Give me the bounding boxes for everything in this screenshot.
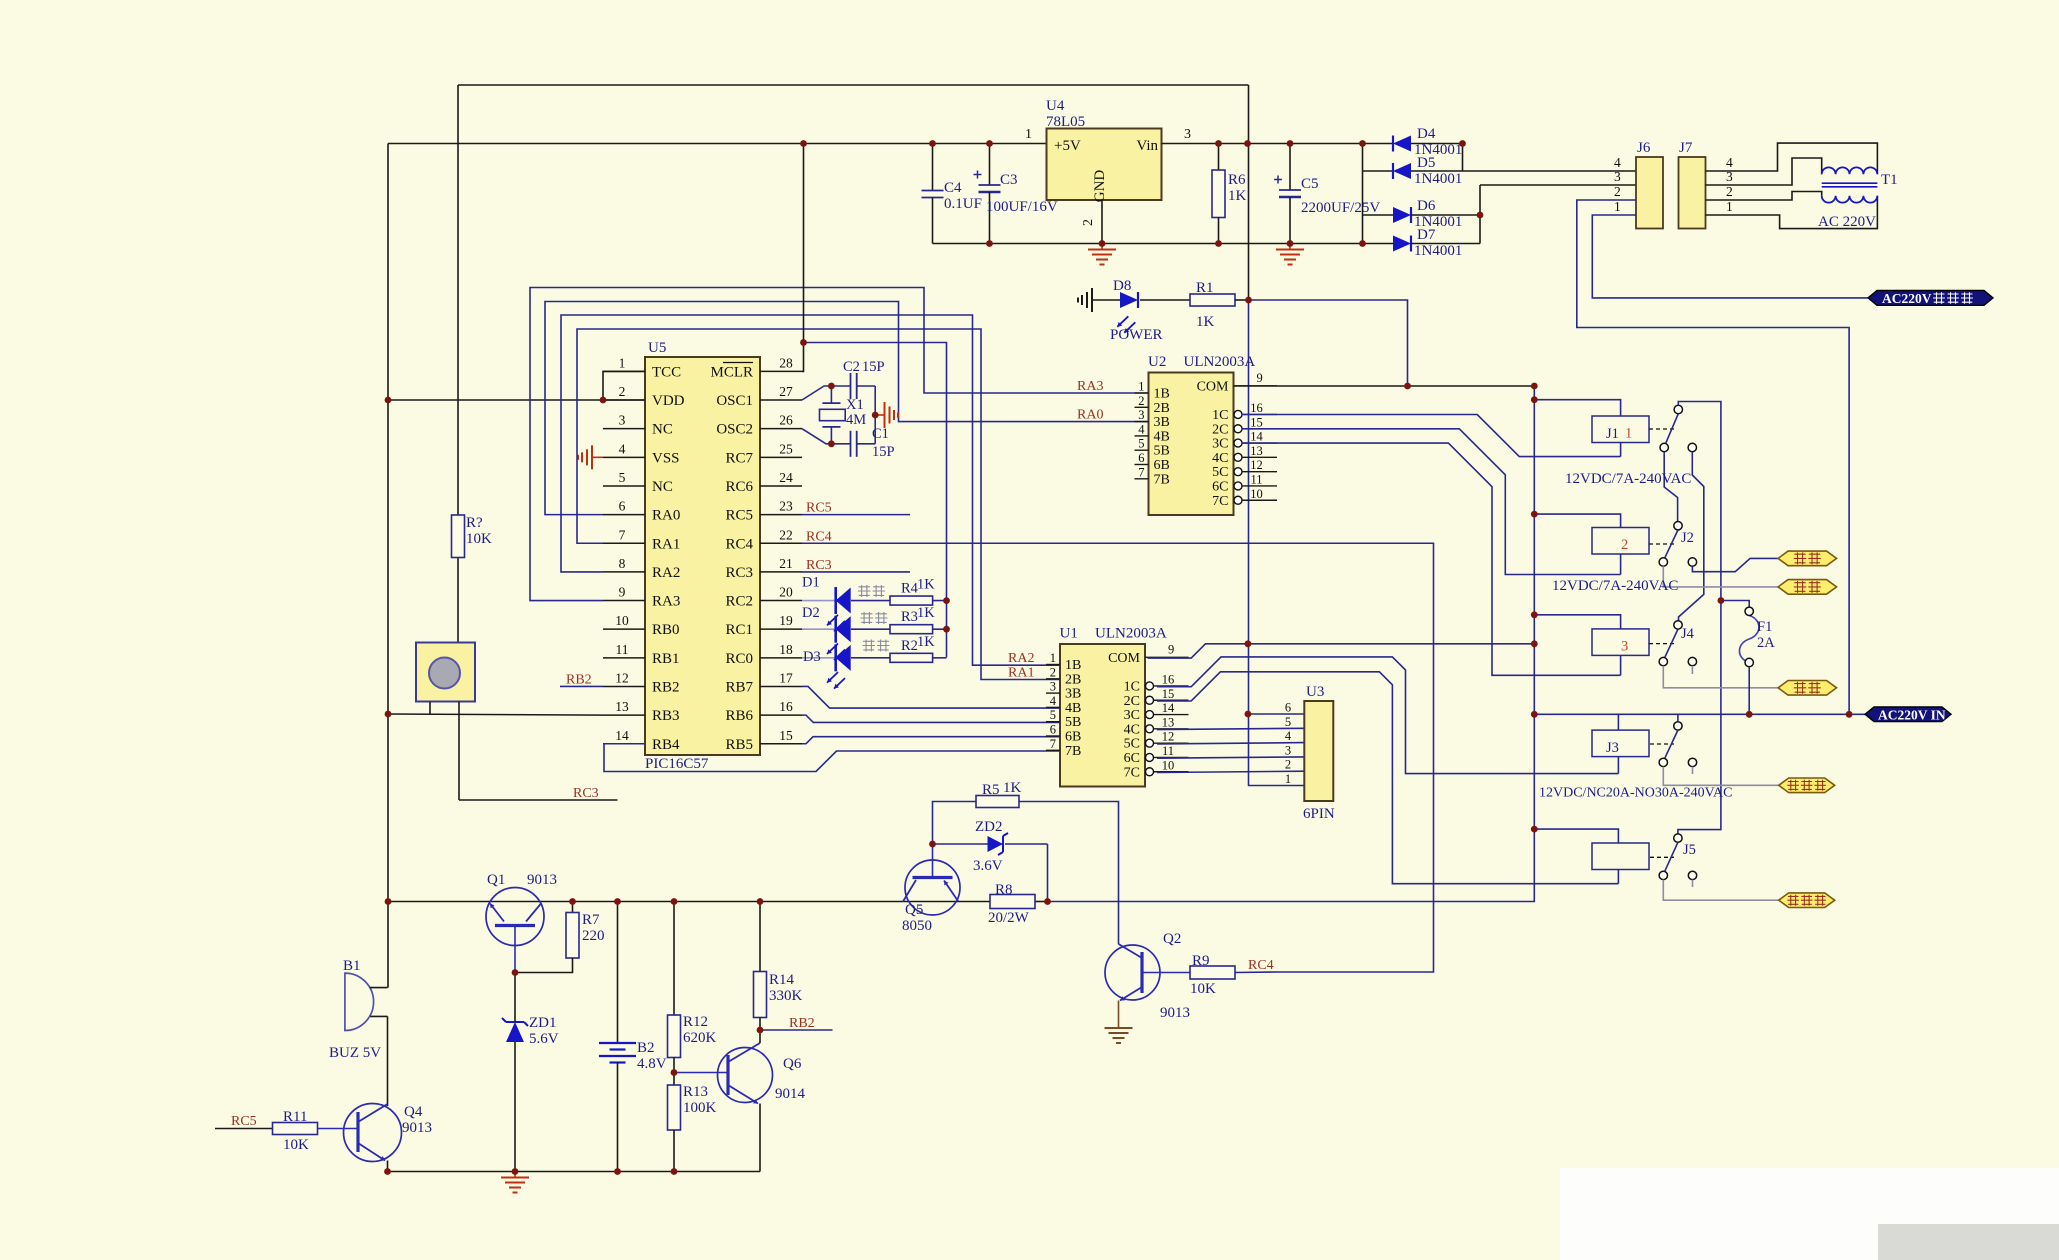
svg-text:330K: 330K — [769, 988, 803, 1004]
wire J2 NC to port mid — [1663, 566, 1778, 587]
svg-text:C2: C2 — [843, 359, 860, 375]
wire ZD2 to rail — [1047, 844, 1049, 902]
svg-text:21: 21 — [779, 556, 793, 571]
svg-text:RB2: RB2 — [566, 672, 592, 687]
wire J4 NC to port weak — [1663, 666, 1778, 688]
battery B2 4.8V — [599, 902, 667, 1172]
wire J2 coil feed — [1534, 514, 1620, 527]
wire R? to sensor — [457, 558, 459, 643]
svg-text:15P: 15P — [872, 444, 895, 460]
wire RB3 sensor — [388, 714, 604, 715]
svg-text:R8: R8 — [995, 882, 1013, 898]
svg-text:U1: U1 — [1060, 626, 1078, 642]
svg-text:1: 1 — [1138, 380, 1144, 394]
svg-text:C3: C3 — [1000, 172, 1018, 188]
resistor R2 1K — [851, 634, 947, 663]
svg-text:PIC16C57: PIC16C57 — [645, 756, 709, 772]
svg-text:15: 15 — [1162, 687, 1175, 701]
wire J7 secondary — [1706, 143, 1878, 229]
svg-text:R13: R13 — [683, 1084, 708, 1100]
svg-text:16: 16 — [1250, 401, 1263, 415]
wire J3 coil bottom — [1617, 757, 1619, 774]
svg-text:7C: 7C — [1212, 494, 1228, 509]
wire J3 NC to compressor port — [1663, 767, 1778, 786]
svg-text:Q4: Q4 — [404, 1104, 423, 1120]
svg-text:3: 3 — [1050, 680, 1056, 694]
svg-text:Q6: Q6 — [783, 1056, 802, 1072]
ground D8 — [1078, 288, 1092, 312]
svg-text:1K: 1K — [1228, 188, 1247, 204]
wire RB6 to U1 5B — [802, 715, 1060, 722]
svg-text:15: 15 — [779, 728, 793, 743]
svg-text:RC2: RC2 — [725, 594, 753, 610]
svg-text:8: 8 — [619, 556, 626, 571]
wire MCLR branch to LED resistors — [804, 343, 947, 658]
svg-text:100K: 100K — [683, 1100, 717, 1116]
svg-text:5: 5 — [619, 470, 626, 485]
wire OSC2 link — [802, 429, 831, 444]
port AC220V IN — [1865, 707, 1951, 723]
svg-text:BUZ 5V: BUZ 5V — [329, 1045, 381, 1061]
wire J4 coil bottom — [1620, 655, 1622, 675]
wire R? pullup top — [457, 85, 459, 515]
svg-text:24: 24 — [779, 470, 793, 485]
label 12VDC/7A-240VAC 2 — [1552, 578, 1678, 594]
ground VSS pin4 — [578, 445, 603, 469]
svg-text:2C: 2C — [1124, 694, 1140, 709]
buzzer B1 BUZ 5V — [329, 958, 388, 1061]
svg-text:D7: D7 — [1417, 227, 1436, 243]
wire main bottom rail — [388, 901, 990, 903]
svg-text:0.1UF: 0.1UF — [944, 196, 982, 212]
svg-text:X1: X1 — [846, 397, 864, 413]
capacitor C3 — [974, 144, 1058, 244]
labels LED chinese — [858, 585, 890, 652]
ground bottom rail — [501, 1172, 529, 1193]
svg-text:7C: 7C — [1124, 765, 1140, 780]
svg-text:AC220V IN: AC220V IN — [1878, 708, 1946, 723]
wire J5 NC to valve port — [1663, 880, 1778, 901]
svg-text:12: 12 — [1162, 730, 1175, 744]
wire RA0 loop — [545, 302, 1149, 515]
wire MCLR pullup — [802, 144, 804, 372]
svg-text:11: 11 — [616, 642, 629, 657]
svg-text:R?: R? — [466, 515, 483, 531]
svg-text:19: 19 — [779, 613, 793, 628]
svg-text:1N4001: 1N4001 — [1414, 243, 1462, 259]
wire AC220V IN line — [1534, 713, 1865, 715]
ground U4 pin2 — [1088, 244, 1116, 265]
svg-text:16: 16 — [1162, 672, 1175, 686]
svg-text:J7: J7 — [1679, 140, 1693, 156]
transistor Q1 9013 — [486, 872, 557, 973]
wire J1 NC to J2 common — [1664, 452, 1677, 522]
wire Q2 emitter gnd — [1118, 1001, 1120, 1023]
svg-text:D6: D6 — [1417, 198, 1436, 214]
svg-text:R5: R5 — [982, 782, 1000, 798]
wire +5V rail left — [388, 143, 1047, 145]
connector J7 — [1679, 140, 1734, 229]
svg-text:RC3: RC3 — [573, 786, 599, 801]
fuse F1 2A — [1721, 601, 1775, 715]
wire J4 NO stub — [1691, 666, 1693, 674]
label RB2 pin12 — [560, 672, 603, 687]
svg-text:J3: J3 — [1606, 740, 1619, 756]
svg-text:620K: 620K — [683, 1030, 717, 1046]
port three-way valve — [1779, 893, 1835, 908]
svg-text:Q2: Q2 — [1163, 931, 1181, 947]
svg-text:10: 10 — [615, 613, 629, 628]
svg-text:2: 2 — [1138, 394, 1144, 408]
wire U4 pin2 to gnd rail — [1101, 200, 1103, 244]
wire U2 3C to J4 coil — [1242, 443, 1621, 675]
svg-text:2C: 2C — [1212, 422, 1228, 437]
svg-text:J1: J1 — [1606, 426, 1619, 442]
svg-text:RC6: RC6 — [725, 479, 753, 495]
wire J1 NO to J4 common — [1679, 452, 1704, 621]
svg-text:1B: 1B — [1065, 658, 1081, 673]
wire J5 coil bottom — [1617, 870, 1619, 884]
svg-text:2: 2 — [619, 384, 626, 399]
wire D6 to J6 pin3 — [1480, 184, 1636, 186]
svg-text:RB0: RB0 — [652, 622, 680, 638]
svg-text:10K: 10K — [283, 1137, 309, 1153]
svg-text:3: 3 — [1614, 169, 1621, 184]
svg-text:RC3: RC3 — [806, 558, 832, 573]
resistor R11 10K — [215, 1109, 318, 1153]
wire R1 node to U2 COM — [1249, 300, 1408, 386]
svg-text:+5V: +5V — [1054, 138, 1081, 154]
svg-text:RC3: RC3 — [725, 565, 753, 581]
svg-text:7B: 7B — [1065, 744, 1081, 759]
svg-text:R1: R1 — [1196, 280, 1214, 296]
port mid wind — [1778, 580, 1837, 595]
svg-text:1K: 1K — [1003, 780, 1022, 796]
svg-text:RA0: RA0 — [652, 508, 680, 524]
watermark box — [1560, 1168, 2059, 1260]
wire J3 NO stub — [1692, 767, 1694, 774]
svg-text:U3: U3 — [1306, 684, 1324, 700]
svg-text:RA2: RA2 — [652, 565, 680, 581]
wire RB4 loop — [604, 744, 1060, 772]
svg-text:9: 9 — [619, 585, 626, 600]
svg-text:17: 17 — [779, 670, 793, 685]
svg-text:RA0: RA0 — [1077, 408, 1103, 423]
svg-text:RC4: RC4 — [725, 536, 753, 552]
resistor R9 10K — [1190, 953, 1278, 997]
svg-text:J4: J4 — [1681, 626, 1695, 642]
svg-text:6C: 6C — [1212, 479, 1228, 494]
wire RA3 loop — [530, 288, 1149, 601]
resistor R? — [452, 515, 493, 558]
svg-text:RB1: RB1 — [652, 651, 680, 667]
svg-text:RA1: RA1 — [652, 536, 680, 552]
resistor R12 620K — [668, 902, 717, 1086]
wire RB5 to U1 6B — [802, 737, 1060, 744]
transistor Q4 9013 — [318, 1104, 433, 1162]
sensor microphone — [416, 643, 475, 801]
wire TCC pin1 — [603, 371, 645, 400]
svg-text:F1: F1 — [1757, 619, 1772, 635]
svg-text:D3: D3 — [803, 649, 821, 665]
svg-text:1K: 1K — [917, 634, 935, 650]
ground crystal — [875, 402, 898, 428]
svg-text:1C: 1C — [1212, 408, 1228, 423]
svg-text:8050: 8050 — [902, 918, 932, 934]
diode D5 — [1363, 155, 1463, 187]
wire J6 pin1 to common port — [1592, 215, 1868, 298]
svg-text:23: 23 — [779, 499, 793, 514]
wire U2 2C to J2 coil — [1242, 429, 1621, 575]
svg-text:4M: 4M — [846, 412, 866, 428]
svg-text:10K: 10K — [1190, 981, 1216, 997]
svg-text:RB7: RB7 — [725, 679, 753, 695]
svg-text:D8: D8 — [1113, 278, 1131, 294]
resistor R7 220 — [515, 902, 605, 973]
svg-text:2: 2 — [1726, 184, 1733, 199]
svg-text:11: 11 — [1162, 744, 1174, 758]
svg-text:NC: NC — [652, 479, 673, 495]
svg-text:RC0: RC0 — [725, 651, 753, 667]
port weak wind — [1778, 681, 1837, 696]
svg-text:TCC: TCC — [652, 364, 681, 380]
svg-text:RC7: RC7 — [725, 450, 753, 466]
svg-text:5: 5 — [1285, 715, 1291, 729]
diode D7 — [1363, 227, 1481, 259]
svg-text:9013: 9013 — [1160, 1005, 1190, 1021]
wire gnd rail power — [933, 243, 1363, 245]
svg-text:6C: 6C — [1124, 751, 1140, 766]
svg-text:COM: COM — [1197, 379, 1229, 394]
diode D4 — [1393, 126, 1463, 158]
wire J1 coil feed — [1534, 400, 1620, 416]
svg-text:220: 220 — [582, 928, 605, 944]
connector U3 6PIN — [1285, 684, 1335, 822]
switch J2 — [1659, 522, 1697, 567]
port strong wind — [1778, 551, 1837, 566]
svg-text:AC220V: AC220V — [1882, 291, 1932, 306]
svg-text:RC4: RC4 — [806, 529, 832, 544]
svg-text:B2: B2 — [637, 1040, 655, 1056]
svg-text:3: 3 — [1184, 127, 1191, 142]
svg-text:25: 25 — [779, 441, 793, 456]
svg-text:5: 5 — [1138, 437, 1144, 451]
svg-text:22: 22 — [779, 527, 793, 542]
wire U1 COM — [1148, 644, 1535, 658]
wire relay supply bus — [1048, 386, 1535, 902]
wire RA2 loop — [561, 315, 1060, 665]
svg-text:4C: 4C — [1212, 451, 1228, 466]
svg-text:14: 14 — [1162, 701, 1175, 715]
wire D5 to J6 pin4 — [1463, 170, 1637, 172]
svg-text:3C: 3C — [1212, 437, 1228, 452]
svg-text:3B: 3B — [1154, 415, 1170, 430]
svg-text:13: 13 — [1162, 715, 1175, 729]
svg-text:J2: J2 — [1681, 530, 1694, 546]
svg-text:R9: R9 — [1192, 953, 1210, 969]
svg-text:1C: 1C — [1124, 679, 1140, 694]
svg-text:R11: R11 — [283, 1109, 307, 1125]
svg-text:3: 3 — [619, 413, 626, 428]
svg-text:J5: J5 — [1683, 842, 1696, 858]
svg-text:1: 1 — [1025, 127, 1032, 142]
svg-text:16: 16 — [779, 699, 793, 714]
svg-text:RC5: RC5 — [231, 1114, 257, 1129]
svg-text:4: 4 — [1138, 422, 1145, 436]
wire B1 lower to Q4 — [387, 1016, 389, 1106]
LED D3 — [802, 644, 851, 688]
svg-text:RB5: RB5 — [725, 737, 753, 753]
label RC3 net — [802, 558, 910, 573]
svg-text:20: 20 — [779, 585, 793, 600]
wire RB7 to U1 4B — [802, 686, 1060, 708]
svg-text:R14: R14 — [769, 972, 795, 988]
svg-text:AC 220V: AC 220V — [1818, 214, 1876, 230]
svg-text:RA1: RA1 — [1008, 666, 1034, 681]
svg-text:D1: D1 — [802, 575, 820, 591]
svg-text:12: 12 — [1250, 458, 1263, 472]
svg-text:RB4: RB4 — [652, 737, 680, 753]
svg-text:26: 26 — [779, 413, 793, 428]
svg-text:D2: D2 — [802, 605, 820, 621]
svg-text:RB2: RB2 — [652, 679, 680, 695]
svg-text:3: 3 — [1621, 638, 1628, 654]
ground Q2 — [1105, 1022, 1133, 1043]
svg-text:3: 3 — [1285, 743, 1291, 757]
svg-text:10K: 10K — [466, 531, 492, 547]
wire crystal right tie — [874, 386, 876, 444]
svg-text:J6: J6 — [1637, 140, 1651, 156]
svg-text:COM: COM — [1108, 651, 1140, 666]
svg-text:7: 7 — [1050, 737, 1056, 751]
svg-text:4C: 4C — [1124, 722, 1140, 737]
svg-text:1K: 1K — [917, 605, 935, 621]
svg-text:RC4: RC4 — [1248, 958, 1274, 973]
svg-text:6B: 6B — [1154, 458, 1170, 473]
svg-text:RC1: RC1 — [725, 622, 753, 638]
capacitor C5 — [1274, 144, 1380, 244]
transformer T1 — [1818, 167, 1898, 230]
svg-text:1B: 1B — [1154, 387, 1170, 402]
resistor R14 330K — [754, 902, 803, 1044]
svg-text:15: 15 — [1250, 415, 1263, 429]
wire VDD pin2 — [388, 399, 645, 401]
svg-text:RB6: RB6 — [725, 708, 753, 724]
wire U1 1C to J3 coil — [1157, 657, 1618, 774]
regulator U4 78L05 — [1025, 98, 1191, 226]
svg-text:RA3: RA3 — [652, 594, 680, 610]
capacitor C2 15P — [831, 359, 884, 399]
svg-text:4: 4 — [1285, 729, 1292, 743]
svg-text:2A: 2A — [1757, 635, 1775, 651]
relay J2 — [1592, 528, 1694, 555]
svg-text:4B: 4B — [1154, 429, 1170, 444]
svg-text:1: 1 — [1285, 772, 1291, 786]
svg-text:10: 10 — [1162, 758, 1175, 772]
wire U2 1C to J1 coil — [1242, 415, 1621, 457]
svg-text:9: 9 — [1168, 642, 1174, 656]
wire COM branch to U3 pin1 — [1248, 785, 1304, 787]
svg-text:1: 1 — [1614, 199, 1621, 214]
wire RC4 net long — [802, 529, 1434, 972]
svg-text:6: 6 — [1138, 451, 1144, 465]
svg-text:1N4001: 1N4001 — [1414, 171, 1462, 187]
port AC220V common — [1868, 291, 1993, 307]
label RA1 — [1008, 666, 1034, 681]
svg-text:RC5: RC5 — [806, 501, 832, 516]
svg-text:T1: T1 — [1881, 172, 1898, 188]
svg-text:ULN2003A: ULN2003A — [1095, 626, 1167, 642]
svg-text:3B: 3B — [1065, 687, 1081, 702]
svg-text:15P: 15P — [862, 359, 885, 375]
svg-text:1: 1 — [1625, 426, 1632, 442]
svg-text:1K: 1K — [917, 577, 935, 593]
svg-text:12VDC/NC20A-NO30A-240VAC: 12VDC/NC20A-NO30A-240VAC — [1539, 786, 1732, 801]
wire J1 coil bottom — [1620, 443, 1622, 457]
wire top loop +V — [458, 84, 1249, 86]
wire J2 coil bottom — [1620, 554, 1622, 575]
svg-text:3: 3 — [1138, 408, 1144, 422]
zener ZD1 5.6V — [502, 973, 559, 1172]
resistor R6 — [1212, 144, 1247, 244]
svg-text:RA2: RA2 — [1008, 651, 1034, 666]
wire rail R8 right — [1035, 901, 1048, 903]
svg-text:7: 7 — [619, 527, 626, 542]
wire D8 anode — [1092, 299, 1120, 301]
svg-text:MCLR: MCLR — [710, 364, 753, 380]
svg-text:78L05: 78L05 — [1046, 114, 1085, 130]
capacitor C4 — [922, 144, 982, 244]
relay J5 — [1592, 842, 1696, 870]
wire +V rail right — [1162, 143, 1394, 145]
svg-text:6B: 6B — [1065, 730, 1081, 745]
svg-text:D5: D5 — [1417, 155, 1435, 171]
transistor Q5 8050 — [902, 844, 960, 934]
label RA0 — [1077, 408, 1103, 423]
svg-text:28: 28 — [779, 355, 793, 370]
svg-text:Q5: Q5 — [905, 902, 923, 918]
svg-text:1K: 1K — [1196, 314, 1215, 330]
svg-text:POWER: POWER — [1110, 327, 1163, 343]
svg-text:VSS: VSS — [652, 450, 680, 466]
svg-text:2: 2 — [1081, 219, 1096, 226]
wire Q4 emitter to rail — [387, 1161, 389, 1172]
svg-text:Q1: Q1 — [487, 872, 505, 888]
wire U1 outputs to U3 — [1157, 728, 1304, 772]
svg-text:12VDC/7A-240VAC: 12VDC/7A-240VAC — [1565, 471, 1691, 487]
switch J4 — [1659, 621, 1697, 666]
svg-text:R12: R12 — [683, 1014, 708, 1030]
zener ZD2 3.6V — [933, 819, 1048, 874]
svg-text:14: 14 — [615, 728, 629, 743]
svg-text:3.6V: 3.6V — [973, 858, 1003, 874]
wire J2 NO to port strong — [1692, 558, 1778, 571]
svg-text:RB2: RB2 — [789, 1016, 815, 1031]
wire J3 common tap — [1677, 714, 1679, 721]
svg-text:4.8V: 4.8V — [637, 1056, 667, 1072]
wire Vin branch vertical — [1248, 85, 1250, 300]
svg-text:ZD1: ZD1 — [529, 1015, 557, 1031]
svg-text:C5: C5 — [1301, 176, 1319, 192]
LED D2 — [802, 605, 851, 660]
svg-text:4B: 4B — [1065, 701, 1081, 716]
svg-text:5B: 5B — [1154, 444, 1170, 459]
svg-text:9013: 9013 — [527, 872, 557, 888]
svg-text:ULN2003A: ULN2003A — [1184, 354, 1256, 370]
wire D4 D5 cathode tie — [1462, 144, 1464, 172]
svg-text:12: 12 — [615, 670, 629, 685]
svg-text:R3: R3 — [901, 609, 918, 625]
